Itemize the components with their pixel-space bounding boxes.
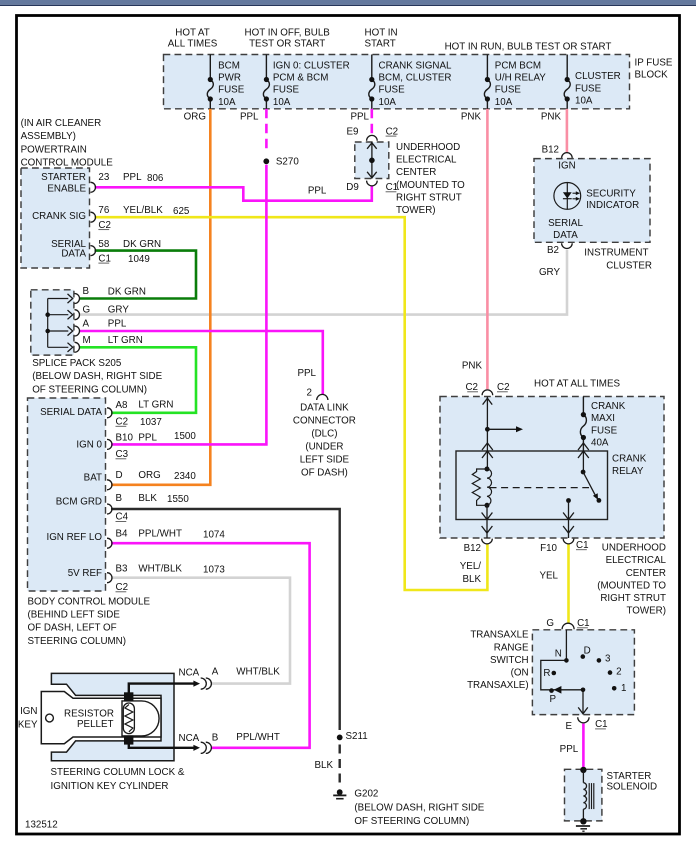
svg-text:(BEHIND LEFT SIDE: (BEHIND LEFT SIDE bbox=[28, 610, 121, 621]
svg-text:PPL/WHT: PPL/WHT bbox=[138, 528, 182, 539]
svg-text:TEST OR START: TEST OR START bbox=[249, 38, 325, 49]
svg-text:(IN AIR CLEANER: (IN AIR CLEANER bbox=[21, 118, 102, 129]
svg-text:LT GRN: LT GRN bbox=[108, 335, 143, 346]
svg-text:ORG: ORG bbox=[138, 470, 160, 481]
svg-text:SECURITY: SECURITY bbox=[586, 188, 636, 199]
svg-text:CENTER: CENTER bbox=[396, 167, 436, 178]
svg-text:CLUSTER: CLUSTER bbox=[606, 260, 652, 271]
svg-text:PPL: PPL bbox=[308, 185, 327, 196]
svg-text:PNK: PNK bbox=[462, 361, 483, 372]
svg-text:806: 806 bbox=[147, 173, 164, 184]
svg-text:IGN REF LO: IGN REF LO bbox=[46, 532, 102, 543]
svg-text:C1: C1 bbox=[595, 719, 608, 730]
svg-text:B: B bbox=[83, 286, 90, 297]
svg-text:PPL: PPL bbox=[108, 319, 127, 330]
svg-text:SERIAL: SERIAL bbox=[548, 218, 583, 229]
svg-text:1037: 1037 bbox=[140, 417, 162, 428]
svg-text:A8: A8 bbox=[116, 400, 129, 411]
svg-text:1550: 1550 bbox=[167, 494, 189, 505]
svg-text:E: E bbox=[566, 721, 573, 732]
svg-text:IGN: IGN bbox=[20, 706, 37, 717]
svg-text:FUSE: FUSE bbox=[591, 425, 618, 436]
svg-text:DATA LINK: DATA LINK bbox=[300, 402, 349, 413]
svg-text:(MOUNTED TO: (MOUNTED TO bbox=[396, 180, 465, 191]
svg-text:IP FUSE: IP FUSE bbox=[635, 58, 673, 69]
svg-text:FUSE: FUSE bbox=[495, 85, 522, 96]
svg-text:SERIAL DATA: SERIAL DATA bbox=[40, 407, 102, 418]
svg-text:BODY CONTROL MODULE: BODY CONTROL MODULE bbox=[28, 596, 151, 607]
svg-text:YEL/: YEL/ bbox=[460, 561, 482, 572]
svg-text:NCA: NCA bbox=[179, 667, 200, 678]
svg-text:B: B bbox=[116, 493, 123, 504]
svg-text:A: A bbox=[83, 319, 90, 330]
svg-text:BLK: BLK bbox=[314, 760, 333, 771]
svg-text:1073: 1073 bbox=[203, 564, 225, 575]
svg-text:IGN 0: IGN 0 bbox=[76, 439, 102, 450]
svg-text:HOT AT: HOT AT bbox=[175, 28, 209, 39]
svg-text:TOWER): TOWER) bbox=[626, 606, 666, 617]
svg-text:STARTER: STARTER bbox=[41, 172, 86, 183]
svg-text:STARTER: STARTER bbox=[607, 771, 652, 782]
svg-text:YEL: YEL bbox=[539, 571, 558, 582]
svg-text:58: 58 bbox=[98, 239, 109, 250]
svg-text:GRY: GRY bbox=[108, 305, 130, 316]
svg-text:B4: B4 bbox=[116, 528, 129, 539]
svg-text:HOT IN: HOT IN bbox=[365, 28, 398, 39]
svg-text:CONTROL MODULE: CONTROL MODULE bbox=[21, 158, 114, 169]
svg-text:FUSE: FUSE bbox=[273, 85, 300, 96]
svg-text:D9: D9 bbox=[346, 182, 359, 193]
svg-text:PCM BCM: PCM BCM bbox=[495, 60, 541, 71]
svg-text:625: 625 bbox=[173, 206, 190, 217]
svg-text:POWERTRAIN: POWERTRAIN bbox=[21, 144, 87, 155]
svg-text:R: R bbox=[543, 668, 550, 679]
svg-text:IGN 0: CLUSTER: IGN 0: CLUSTER bbox=[273, 60, 350, 71]
svg-text:RIGHT STRUT: RIGHT STRUT bbox=[396, 192, 462, 203]
svg-text:BAT: BAT bbox=[84, 473, 102, 484]
svg-text:40A: 40A bbox=[591, 438, 609, 449]
svg-text:NCA: NCA bbox=[179, 733, 200, 744]
svg-text:DATA: DATA bbox=[553, 230, 578, 241]
svg-text:RELAY: RELAY bbox=[612, 466, 644, 477]
svg-text:M: M bbox=[83, 335, 91, 346]
svg-text:G: G bbox=[546, 618, 554, 629]
svg-text:DK GRN: DK GRN bbox=[123, 239, 161, 250]
svg-text:B10: B10 bbox=[116, 433, 134, 444]
svg-text:B3: B3 bbox=[116, 563, 129, 574]
svg-text:5V REF: 5V REF bbox=[68, 568, 102, 579]
svg-text:FUSE: FUSE bbox=[218, 85, 245, 96]
svg-text:ASSEMBLY): ASSEMBLY) bbox=[21, 131, 76, 142]
svg-text:SWITCH: SWITCH bbox=[490, 655, 529, 666]
svg-text:HOT IN OFF, BULB: HOT IN OFF, BULB bbox=[245, 28, 331, 39]
svg-text:D: D bbox=[116, 470, 123, 481]
svg-text:PPL/WHT: PPL/WHT bbox=[236, 732, 280, 743]
svg-text:PCM & BCM: PCM & BCM bbox=[273, 73, 329, 84]
svg-text:G: G bbox=[83, 304, 91, 315]
svg-text:RIGHT STRUT: RIGHT STRUT bbox=[600, 593, 666, 604]
svg-text:G202: G202 bbox=[354, 788, 378, 799]
svg-text:ALL TIMES: ALL TIMES bbox=[168, 38, 218, 49]
svg-text:PPL: PPL bbox=[560, 744, 579, 755]
svg-text:10A: 10A bbox=[575, 96, 593, 107]
svg-text:STEERING COLUMN): STEERING COLUMN) bbox=[28, 636, 127, 647]
svg-text:LT GRN: LT GRN bbox=[138, 400, 173, 411]
svg-text:TOWER): TOWER) bbox=[396, 205, 436, 216]
svg-text:(UNDER: (UNDER bbox=[305, 441, 343, 452]
svg-text:GRY: GRY bbox=[539, 267, 561, 278]
svg-text:1500: 1500 bbox=[174, 431, 196, 442]
svg-text:CLUSTER: CLUSTER bbox=[575, 71, 621, 82]
svg-text:BLK: BLK bbox=[138, 493, 157, 504]
svg-text:N: N bbox=[555, 648, 562, 659]
svg-text:2340: 2340 bbox=[174, 471, 196, 482]
svg-text:B12: B12 bbox=[464, 543, 481, 554]
svg-text:1: 1 bbox=[621, 683, 626, 694]
svg-text:ORG: ORG bbox=[184, 112, 206, 123]
svg-text:WHT/BLK: WHT/BLK bbox=[138, 563, 182, 574]
svg-text:PNK: PNK bbox=[541, 112, 562, 123]
svg-text:PWR: PWR bbox=[218, 73, 241, 84]
svg-text:PPL: PPL bbox=[350, 112, 369, 123]
svg-text:132512: 132512 bbox=[25, 820, 58, 831]
svg-text:FUSE: FUSE bbox=[575, 83, 602, 94]
svg-text:B12: B12 bbox=[542, 144, 559, 155]
svg-text:D: D bbox=[584, 645, 591, 656]
svg-text:OF STEERING COLUMN): OF STEERING COLUMN) bbox=[32, 384, 147, 395]
svg-text:LEFT SIDE: LEFT SIDE bbox=[300, 454, 350, 465]
svg-text:BCM, CLUSTER: BCM, CLUSTER bbox=[379, 73, 452, 84]
svg-text:ENABLE: ENABLE bbox=[47, 183, 86, 194]
svg-text:FUSE: FUSE bbox=[379, 85, 406, 96]
svg-text:HOT AT ALL TIMES: HOT AT ALL TIMES bbox=[534, 379, 620, 390]
svg-text:START: START bbox=[365, 38, 396, 49]
svg-text:PPL: PPL bbox=[240, 112, 259, 123]
svg-text:OF DASH, LEFT OF: OF DASH, LEFT OF bbox=[28, 623, 117, 634]
svg-text:(ON: (ON bbox=[511, 668, 529, 679]
svg-text:S270: S270 bbox=[276, 156, 299, 167]
svg-text:(BELOW DASH, RIGHT SIDE: (BELOW DASH, RIGHT SIDE bbox=[32, 371, 162, 382]
svg-text:BLK: BLK bbox=[462, 574, 481, 585]
svg-text:B2: B2 bbox=[547, 245, 559, 256]
svg-text:(DLC): (DLC) bbox=[311, 428, 337, 439]
svg-text:SOLENOID: SOLENOID bbox=[607, 781, 658, 792]
svg-text:CRANK SIGNAL: CRANK SIGNAL bbox=[379, 60, 453, 71]
svg-text:TRANSAXLE: TRANSAXLE bbox=[470, 630, 529, 641]
svg-text:UNDERHOOD: UNDERHOOD bbox=[396, 142, 460, 153]
svg-text:WHT/BLK: WHT/BLK bbox=[236, 667, 280, 678]
svg-text:YEL/BLK: YEL/BLK bbox=[123, 205, 163, 216]
svg-text:E9: E9 bbox=[347, 126, 359, 137]
svg-text:1049: 1049 bbox=[128, 254, 150, 265]
svg-text:UNDERHOOD: UNDERHOOD bbox=[602, 543, 666, 554]
svg-text:10A: 10A bbox=[495, 97, 513, 108]
svg-text:IGNITION KEY CYLINDER: IGNITION KEY CYLINDER bbox=[51, 781, 169, 792]
svg-text:BLOCK: BLOCK bbox=[635, 70, 669, 81]
svg-text:RANGE: RANGE bbox=[494, 642, 529, 653]
svg-text:PNK: PNK bbox=[461, 112, 482, 123]
svg-text:PPL: PPL bbox=[138, 432, 157, 443]
svg-text:TRANSAXLE): TRANSAXLE) bbox=[467, 680, 529, 691]
svg-text:S211: S211 bbox=[346, 731, 368, 742]
svg-text:INSTRUMENT: INSTRUMENT bbox=[584, 247, 648, 258]
svg-text:OF STEERING COLUMN): OF STEERING COLUMN) bbox=[354, 816, 469, 827]
svg-text:10A: 10A bbox=[379, 97, 397, 108]
svg-text:INDICATOR: INDICATOR bbox=[586, 200, 639, 211]
svg-text:F10: F10 bbox=[540, 543, 557, 554]
svg-text:ELECTRICAL: ELECTRICAL bbox=[396, 155, 457, 166]
svg-text:MAXI: MAXI bbox=[591, 413, 615, 424]
svg-text:IGN: IGN bbox=[558, 160, 575, 171]
svg-text:PELLET: PELLET bbox=[77, 719, 114, 730]
svg-text:CRANK: CRANK bbox=[612, 454, 647, 465]
svg-text:B: B bbox=[212, 733, 219, 744]
svg-text:2: 2 bbox=[307, 387, 312, 398]
svg-text:23: 23 bbox=[98, 172, 109, 183]
svg-text:HOT IN RUN, BULB TEST OR START: HOT IN RUN, BULB TEST OR START bbox=[445, 42, 612, 53]
svg-text:10A: 10A bbox=[273, 97, 291, 108]
svg-text:2: 2 bbox=[616, 666, 621, 677]
svg-text:PPL: PPL bbox=[297, 368, 316, 379]
svg-text:P: P bbox=[550, 694, 557, 705]
svg-text:3: 3 bbox=[605, 654, 611, 665]
svg-text:STEERING COLUMN LOCK &: STEERING COLUMN LOCK & bbox=[51, 767, 185, 778]
svg-text:ELECTRICAL: ELECTRICAL bbox=[606, 555, 667, 566]
svg-text:10A: 10A bbox=[218, 97, 236, 108]
svg-text:BCM GRD: BCM GRD bbox=[56, 496, 102, 507]
svg-text:76: 76 bbox=[98, 205, 109, 216]
svg-text:CENTER: CENTER bbox=[626, 568, 666, 579]
svg-text:1074: 1074 bbox=[203, 530, 225, 541]
svg-text:DK GRN: DK GRN bbox=[108, 287, 146, 298]
svg-text:CRANK SIG: CRANK SIG bbox=[32, 211, 86, 222]
svg-text:A: A bbox=[212, 667, 219, 678]
svg-text:DATA: DATA bbox=[61, 248, 86, 259]
svg-text:CRANK: CRANK bbox=[591, 401, 626, 412]
svg-text:BCM: BCM bbox=[218, 60, 240, 71]
svg-text:SPLICE PACK S205: SPLICE PACK S205 bbox=[32, 358, 122, 369]
svg-text:OF DASH): OF DASH) bbox=[301, 467, 348, 478]
svg-text:U/H RELAY: U/H RELAY bbox=[495, 73, 546, 84]
svg-text:KEY: KEY bbox=[18, 719, 38, 730]
svg-text:(BELOW DASH, RIGHT SIDE: (BELOW DASH, RIGHT SIDE bbox=[354, 802, 484, 813]
svg-text:(MOUNTED TO: (MOUNTED TO bbox=[597, 580, 666, 591]
svg-text:CONNECTOR: CONNECTOR bbox=[293, 415, 356, 426]
svg-text:PPL: PPL bbox=[123, 172, 142, 183]
